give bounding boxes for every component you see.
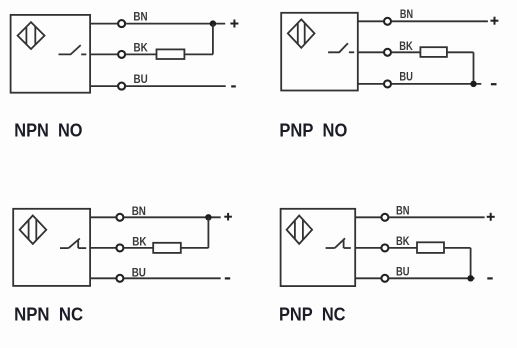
NC switch contact — [326, 238, 351, 248]
wire BK to resistor — [392, 51, 421, 53]
terminal circle BK — [116, 244, 123, 251]
svg-text:BU: BU — [396, 265, 410, 279]
junction dot on BU — [467, 275, 473, 281]
- terminal — [231, 85, 236, 87]
svg-text:BU: BU — [134, 72, 148, 86]
load resistor R1 — [157, 49, 185, 59]
wire BN (box to terminal) — [90, 216, 116, 218]
wire BN (box to terminal) — [355, 216, 381, 218]
NO switch contact — [59, 45, 87, 54]
wire resistor to riser — [184, 53, 213, 55]
terminal circle BU — [118, 83, 125, 90]
NO switch contact — [328, 43, 354, 52]
wire BK (box to terminal) — [90, 53, 117, 55]
wire riser to BN junction — [212, 24, 214, 55]
svg-text:BU: BU — [132, 265, 146, 279]
terminal circle BK — [381, 244, 388, 251]
terminal circle BU — [381, 275, 388, 282]
- terminal — [491, 83, 497, 85]
svg-text:BK: BK — [396, 234, 410, 248]
svg-text:BN: BN — [133, 9, 147, 23]
wire BN to + — [389, 216, 485, 218]
wire BK to resistor — [124, 247, 153, 249]
load resistor R3 — [153, 243, 181, 253]
svg-text:PNP NC: PNP NC — [279, 304, 346, 324]
wire BU to - — [124, 277, 221, 279]
sensor body box U4 — [281, 209, 356, 286]
terminal circle BN — [116, 214, 123, 221]
svg-text:BN: BN — [400, 7, 413, 21]
terminal circle BK — [384, 49, 391, 56]
terminal circle BN — [384, 18, 391, 25]
terminal circle BU — [116, 275, 123, 282]
svg-text:PNP NO: PNP NO — [279, 121, 347, 141]
wire riser down to BU junction — [470, 248, 472, 278]
wire BN to + — [392, 20, 488, 22]
svg-text:BK: BK — [132, 234, 146, 248]
wire riser to BN junction — [207, 217, 209, 248]
proximity sensor diamond symbol — [18, 22, 45, 49]
wire resistor to riser — [444, 247, 471, 249]
svg-text:BN: BN — [132, 204, 146, 218]
proximity sensor diamond symbol — [287, 216, 313, 244]
proximity sensor diamond symbol — [288, 19, 315, 47]
svg-text:BK: BK — [399, 39, 413, 53]
svg-text:BN: BN — [396, 204, 410, 218]
svg-text:NPN NO: NPN NO — [14, 121, 82, 141]
wire BK to resistor — [389, 247, 417, 249]
terminal circle BK — [118, 51, 125, 58]
wire BN to + — [124, 216, 221, 218]
load resistor R2 — [420, 47, 447, 57]
+ terminal — [491, 17, 499, 25]
wire BU to - — [126, 85, 226, 87]
wire BU to - — [392, 83, 482, 85]
+ terminal — [224, 213, 232, 221]
+ terminal — [230, 20, 238, 28]
wire BK (box to terminal) — [358, 51, 384, 53]
- terminal — [225, 277, 230, 279]
wire BK to resistor — [126, 53, 157, 55]
load resistor R4 — [417, 242, 444, 253]
wire BU (box to terminal) — [90, 277, 116, 279]
wire riser down to BU junction — [473, 52, 475, 84]
wire BN (box to terminal) — [90, 23, 117, 25]
junction dot on BN — [210, 20, 216, 26]
sensor body box U3 — [13, 209, 90, 286]
+ terminal — [487, 213, 495, 221]
wire BU (box to terminal) — [355, 277, 381, 279]
terminal circle BU — [384, 80, 391, 87]
sensor body box U1 — [11, 15, 91, 93]
terminal circle BN — [118, 20, 125, 27]
svg-text:BU: BU — [399, 69, 413, 83]
sensor body box U2 — [281, 13, 358, 91]
terminal circle BN — [381, 214, 388, 221]
junction dot on BN — [205, 214, 211, 220]
NC switch contact — [60, 239, 86, 249]
wire BN (box to terminal) — [358, 20, 384, 22]
wire BU to - — [389, 277, 475, 279]
wire BU (box to terminal) — [90, 85, 117, 87]
wire resistor to riser — [181, 247, 209, 249]
svg-text:NPN NC: NPN NC — [14, 305, 83, 325]
wire BK (box to terminal) — [90, 247, 116, 249]
junction dot on BU — [470, 81, 476, 87]
wire resistor to riser — [447, 51, 474, 53]
wire BN to + — [126, 23, 226, 25]
wire BU (box to terminal) — [358, 83, 384, 85]
wire BK (box to terminal) — [355, 247, 381, 249]
svg-text:BK: BK — [134, 41, 148, 55]
- terminal — [487, 277, 492, 279]
proximity sensor diamond symbol — [20, 216, 47, 244]
